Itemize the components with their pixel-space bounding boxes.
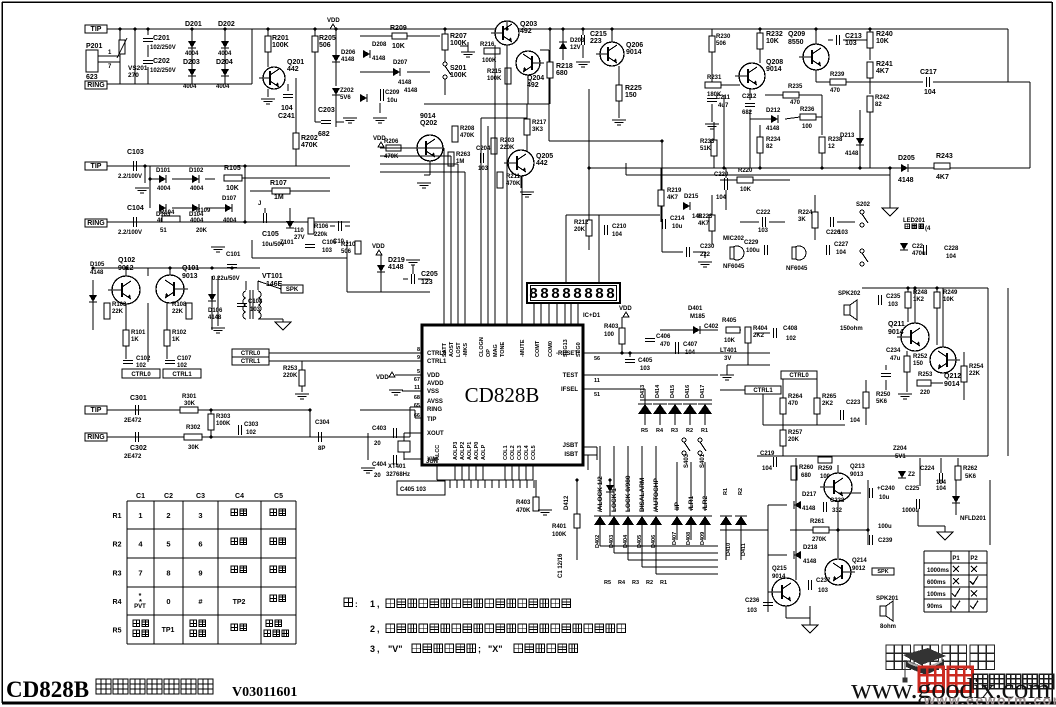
svg-text:D417: D417	[700, 385, 706, 398]
svg-text:8P: 8P	[318, 446, 325, 452]
svg-text:C3: C3	[196, 493, 205, 500]
svg-text:D206: D206	[341, 50, 356, 56]
svg-text:104: 104	[716, 195, 727, 201]
svg-text:103: 103	[888, 302, 899, 308]
svg-text:20: 20	[374, 473, 381, 479]
svg-text:Q213: Q213	[850, 464, 865, 470]
svg-text:D207: D207	[393, 60, 408, 66]
svg-text:103: 103	[838, 230, 849, 236]
svg-text:104: 104	[685, 350, 696, 356]
svg-text:AOLP1: AOLP1	[467, 442, 473, 460]
svg-text:J: J	[258, 201, 261, 207]
svg-text:0: 0	[166, 597, 170, 606]
svg-text:C235: C235	[886, 294, 901, 300]
svg-text:D107: D107	[222, 196, 237, 202]
svg-text:C405: C405	[638, 358, 653, 364]
svg-text:C403: C403	[372, 426, 387, 432]
svg-text::: :	[355, 600, 358, 609]
svg-text:R302: R302	[186, 425, 201, 431]
svg-text:104: 104	[612, 232, 623, 238]
svg-text:9014: 9014	[772, 574, 786, 580]
svg-text:Q205: Q205	[536, 153, 553, 160]
svg-text:4148: 4148	[90, 270, 104, 276]
svg-text:AOLP2: AOLP2	[460, 442, 466, 460]
svg-text:NF6045: NF6045	[786, 266, 808, 272]
svg-text:MAG: MAG	[493, 344, 499, 357]
svg-text:CTRL1: CTRL1	[172, 372, 192, 378]
svg-text:C234: C234	[886, 348, 901, 354]
svg-text:100K: 100K	[450, 72, 467, 79]
svg-text:470K: 470K	[301, 142, 318, 149]
svg-text:492: 492	[520, 28, 532, 35]
svg-text:P201: P201	[86, 43, 102, 50]
svg-text:C211: C211	[716, 95, 731, 101]
svg-text:12V: 12V	[570, 45, 581, 51]
svg-text:R5: R5	[641, 428, 648, 434]
svg-text:104: 104	[762, 466, 773, 472]
svg-text:R218: R218	[556, 63, 573, 70]
svg-text:TEST: TEST	[563, 373, 579, 379]
svg-text:R232: R232	[766, 31, 783, 38]
svg-text:5: 5	[166, 540, 170, 549]
svg-text:623: 623	[86, 74, 98, 81]
svg-text:10u: 10u	[672, 224, 683, 230]
svg-text:Q212: Q212	[944, 373, 961, 380]
svg-text:C407: C407	[683, 342, 698, 348]
svg-text:30K: 30K	[184, 401, 196, 407]
svg-text:104: 104	[850, 418, 861, 424]
svg-text:C214: C214	[670, 216, 685, 222]
svg-text:20K: 20K	[574, 227, 586, 233]
svg-text:R264: R264	[788, 394, 803, 400]
svg-text:D101: D101	[156, 168, 171, 174]
svg-text:D416: D416	[685, 385, 691, 398]
svg-text:102: 102	[136, 363, 147, 369]
svg-text:C101: C101	[226, 252, 241, 258]
svg-text:1: 1	[370, 599, 375, 609]
svg-text:150ohm: 150ohm	[840, 326, 863, 332]
svg-text:8550: 8550	[788, 39, 804, 46]
svg-text:/AUTOCHP: /AUTOCHP	[653, 478, 660, 512]
svg-text:2.2/100V: 2.2/100V	[118, 174, 142, 180]
svg-text:10K: 10K	[943, 297, 955, 303]
svg-text:20K: 20K	[196, 228, 208, 234]
svg-text:27V: 27V	[294, 235, 305, 241]
svg-text:D219: D219	[388, 257, 405, 264]
svg-text:S201: S201	[450, 65, 466, 72]
svg-text:*: *	[139, 593, 142, 600]
svg-text:R2: R2	[738, 488, 744, 495]
svg-text:R1: R1	[723, 488, 729, 495]
svg-text:680: 680	[556, 70, 568, 77]
svg-text:51: 51	[594, 392, 600, 398]
svg-text:506: 506	[319, 42, 331, 49]
svg-text:C203: C203	[318, 107, 335, 114]
svg-text:www.eeworm.com: www.eeworm.com	[923, 692, 1056, 707]
svg-text:4K7: 4K7	[667, 195, 679, 201]
svg-text:R2: R2	[686, 428, 693, 434]
svg-text:R4: R4	[618, 580, 626, 586]
svg-text:R243: R243	[936, 153, 953, 160]
svg-text:R106: R106	[314, 224, 329, 230]
svg-text:R1: R1	[113, 513, 122, 520]
svg-text:(4: (4	[925, 226, 931, 232]
svg-text:9014: 9014	[766, 66, 782, 73]
svg-text:LOST: LOST	[456, 342, 462, 357]
svg-text:10K: 10K	[876, 38, 889, 45]
svg-text:COL5: COL5	[531, 445, 537, 460]
svg-text:R4: R4	[113, 599, 122, 606]
svg-text:R103: R103	[112, 302, 127, 308]
svg-text:90ms: 90ms	[927, 604, 943, 610]
svg-text:2E472: 2E472	[124, 454, 142, 460]
svg-text:C5: C5	[274, 493, 283, 500]
svg-text:C2: C2	[164, 493, 173, 500]
svg-text:P2: P2	[970, 556, 978, 562]
svg-text:C225: C225	[905, 486, 920, 492]
svg-text:492: 492	[527, 82, 539, 89]
svg-text:D204: D204	[216, 59, 233, 66]
svg-text:S403: S403	[684, 453, 690, 468]
svg-text:Z202: Z202	[340, 88, 354, 94]
svg-text:3K: 3K	[798, 217, 806, 223]
svg-text:R252: R252	[913, 354, 928, 360]
svg-text:12: 12	[828, 144, 835, 150]
svg-text:4004: 4004	[190, 218, 204, 224]
svg-text:R254: R254	[969, 364, 984, 370]
svg-text:D408: D408	[686, 532, 692, 545]
svg-text:D218: D218	[803, 545, 818, 551]
svg-text:R234: R234	[766, 137, 781, 143]
svg-text:CTRL0: CTRL0	[131, 372, 151, 378]
svg-text:56: 56	[594, 356, 600, 362]
svg-text:D407: D407	[672, 532, 678, 545]
svg-text:C217: C217	[920, 69, 937, 76]
svg-text:AOLP0: AOLP0	[474, 442, 480, 460]
svg-text:470: 470	[660, 342, 671, 348]
svg-text:R206: R206	[384, 139, 399, 145]
svg-text:4148: 4148	[845, 151, 859, 157]
svg-text:100K: 100K	[216, 421, 231, 427]
svg-text:470K: 470K	[384, 154, 399, 160]
svg-text:LOCK 1: LOCK 1	[611, 488, 618, 512]
svg-text:4148: 4148	[803, 559, 817, 565]
svg-text:R3: R3	[632, 580, 639, 586]
svg-text:104: 104	[936, 480, 947, 486]
svg-text:10K: 10K	[766, 38, 779, 45]
svg-text:OP: OP	[486, 349, 492, 357]
svg-text:C239: C239	[878, 538, 893, 544]
svg-text:2K2: 2K2	[753, 333, 765, 339]
svg-text:0.22u/50V: 0.22u/50V	[212, 276, 240, 282]
svg-text:TP2: TP2	[233, 599, 246, 606]
svg-text:2: 2	[370, 624, 375, 634]
svg-text:VDD: VDD	[619, 306, 632, 312]
svg-text:SATT: SATT	[442, 342, 448, 357]
svg-text:R240: R240	[876, 31, 893, 38]
svg-text:D411: D411	[741, 543, 747, 556]
svg-text:COL2: COL2	[510, 445, 516, 460]
svg-text:9014: 9014	[420, 113, 436, 120]
svg-text:100: 100	[802, 124, 813, 130]
svg-text:6: 6	[198, 540, 202, 549]
svg-text:D106: D106	[208, 308, 223, 314]
svg-text:-MUTE: -MUTE	[520, 339, 526, 357]
svg-text:R210: R210	[341, 242, 356, 248]
svg-text:4148: 4148	[208, 315, 222, 321]
svg-text:47u: 47u	[890, 356, 901, 362]
svg-text:104: 104	[936, 486, 947, 492]
svg-text:Q208: Q208	[766, 59, 783, 66]
svg-text:Z2: Z2	[908, 472, 916, 478]
svg-text:442: 442	[536, 160, 548, 167]
svg-text:"X": "X"	[488, 644, 503, 654]
svg-text:C227: C227	[834, 242, 849, 248]
svg-text:R225: R225	[625, 85, 642, 92]
svg-text:D415: D415	[670, 385, 676, 398]
svg-text:102/250V: 102/250V	[150, 68, 176, 74]
svg-text:Q209: Q209	[788, 31, 805, 38]
svg-text:R212: R212	[574, 220, 589, 226]
svg-text:9013: 9013	[850, 472, 864, 478]
svg-text:1000ms: 1000ms	[927, 568, 950, 574]
svg-text:CTRL1: CTRL1	[427, 359, 447, 365]
svg-text:332: 332	[832, 508, 843, 514]
svg-text:JUN: JUN	[426, 459, 438, 465]
svg-text:R1: R1	[660, 580, 667, 586]
svg-text:102: 102	[246, 430, 257, 436]
svg-text:4K7: 4K7	[936, 174, 949, 181]
svg-text:9: 9	[417, 355, 420, 361]
svg-text:9014: 9014	[944, 381, 960, 388]
svg-text:DISALARM: DISALARM	[639, 478, 646, 512]
svg-text:CTRL1: CTRL1	[241, 359, 261, 365]
svg-text:470K: 470K	[506, 181, 521, 187]
svg-text:D217: D217	[802, 492, 817, 498]
svg-text:103: 103	[845, 40, 857, 47]
svg-text:I/P: I/P	[674, 501, 681, 510]
svg-text:D102: D102	[189, 168, 204, 174]
svg-text:R401: R401	[552, 524, 567, 530]
svg-text:4148: 4148	[372, 56, 386, 62]
svg-text:9014: 9014	[626, 49, 642, 56]
svg-text:C230: C230	[700, 244, 715, 250]
svg-text:,: ,	[377, 624, 380, 634]
svg-text:-MKS: -MKS	[463, 343, 469, 357]
svg-text:ALCC: ALCC	[435, 445, 441, 460]
svg-text:C103: C103	[127, 149, 144, 156]
svg-text:10K: 10K	[740, 187, 752, 193]
svg-text:AOST: AOST	[449, 341, 455, 357]
svg-text:682: 682	[742, 110, 753, 116]
svg-text:VDD: VDD	[327, 18, 340, 24]
svg-text:C405 103: C405 103	[400, 487, 427, 493]
svg-text:VDD: VDD	[427, 373, 440, 379]
svg-text:R303: R303	[216, 414, 231, 420]
svg-text:82: 82	[766, 144, 773, 150]
svg-text:VS201: VS201	[128, 65, 148, 72]
svg-text:10u/50V: 10u/50V	[262, 242, 285, 248]
svg-text:IFSEL: IFSEL	[561, 387, 578, 393]
svg-text:220K: 220K	[500, 145, 515, 151]
svg-text:4004: 4004	[183, 84, 197, 90]
svg-text:/LR1: /LR1	[688, 496, 695, 510]
svg-text:4004: 4004	[223, 218, 237, 224]
svg-text:102/250V: 102/250V	[150, 45, 176, 51]
svg-text:CD828B: CD828B	[465, 383, 540, 407]
svg-text:D203: D203	[570, 38, 585, 44]
svg-text:SPK202: SPK202	[838, 291, 861, 297]
svg-text:R109: R109	[196, 208, 211, 214]
svg-text:103: 103	[758, 228, 769, 234]
svg-text:270K: 270K	[812, 537, 827, 543]
svg-text:3: 3	[198, 511, 202, 520]
svg-text:1: 1	[138, 511, 142, 520]
svg-text:R208: R208	[460, 126, 475, 132]
svg-text:680: 680	[801, 473, 812, 479]
svg-text:C241: C241	[278, 113, 295, 120]
svg-text:2K2: 2K2	[822, 401, 834, 407]
svg-text:S202: S202	[856, 202, 871, 208]
svg-text:Q204: Q204	[527, 75, 544, 82]
svg-text:,: ,	[377, 599, 380, 609]
svg-text:R235: R235	[788, 84, 803, 90]
svg-text:,: ,	[377, 644, 380, 654]
svg-text:9013: 9013	[182, 273, 198, 280]
svg-text:C106: C106	[322, 240, 337, 246]
svg-text:10K: 10K	[392, 43, 405, 50]
svg-text:82: 82	[875, 102, 882, 108]
svg-text:1000u: 1000u	[902, 508, 919, 514]
svg-text:10K: 10K	[226, 185, 239, 192]
svg-text:C213: C213	[845, 33, 862, 40]
svg-text:R201: R201	[272, 35, 289, 42]
svg-text:R261: R261	[810, 519, 825, 525]
svg-text:4004: 4004	[218, 51, 232, 57]
svg-text:C404: C404	[372, 462, 387, 468]
svg-text:220K: 220K	[283, 373, 298, 379]
svg-text:Z204: Z204	[893, 446, 907, 452]
svg-text:R262: R262	[963, 466, 978, 472]
svg-text:R263: R263	[456, 152, 471, 158]
svg-text:10u: 10u	[387, 98, 398, 104]
svg-text:CTRL0: CTRL0	[789, 373, 809, 379]
svg-text:102: 102	[786, 336, 797, 342]
svg-text:470: 470	[830, 88, 841, 94]
svg-text:68: 68	[414, 395, 420, 401]
svg-text:8: 8	[417, 347, 420, 353]
svg-text:AVSS: AVSS	[427, 399, 443, 405]
svg-text:R3: R3	[113, 571, 122, 578]
svg-text:150: 150	[625, 92, 637, 99]
svg-text:9012: 9012	[852, 566, 866, 572]
svg-text:/ALOCK 1/2: /ALOCK 1/2	[597, 476, 604, 512]
svg-text:D202: D202	[218, 21, 235, 28]
svg-text:C220: C220	[714, 172, 729, 178]
svg-text:R101: R101	[131, 330, 146, 336]
svg-text:C402: C402	[704, 324, 719, 330]
svg-text:C210: C210	[612, 224, 627, 230]
svg-text:C201: C201	[153, 35, 170, 42]
svg-text:D413: D413	[640, 385, 646, 398]
svg-text:C303: C303	[244, 422, 259, 428]
svg-text:D215: D215	[684, 194, 699, 200]
svg-text:103: 103	[322, 248, 333, 254]
svg-text:10K: 10K	[724, 338, 736, 344]
svg-text:8: 8	[166, 569, 170, 578]
svg-text:CD828B: CD828B	[6, 677, 89, 702]
svg-text:R301: R301	[182, 394, 197, 400]
svg-text:5: 5	[417, 369, 420, 375]
svg-text:LED201: LED201	[903, 218, 926, 224]
svg-text:COM0: COM0	[548, 341, 554, 357]
svg-text:COMT: COMT	[535, 340, 541, 357]
svg-text:C228: C228	[944, 246, 959, 252]
svg-text:R108: R108	[172, 302, 187, 308]
svg-text:R5: R5	[604, 580, 611, 586]
svg-text:150: 150	[913, 361, 924, 367]
svg-text:R236: R236	[800, 107, 815, 113]
svg-text:270: 270	[128, 72, 139, 79]
svg-text:COL4: COL4	[524, 444, 530, 460]
svg-text:SPK201: SPK201	[876, 596, 899, 602]
svg-text:4004: 4004	[157, 186, 171, 192]
svg-text:C4: C4	[235, 493, 244, 500]
svg-text:TONE: TONE	[500, 341, 506, 357]
svg-text:C22: C22	[912, 244, 924, 250]
svg-text:AOLP3: AOLP3	[453, 442, 459, 460]
svg-text:R250: R250	[876, 392, 891, 398]
svg-text:Q214: Q214	[852, 558, 867, 564]
svg-text:R209: R209	[390, 25, 407, 32]
svg-text:R4: R4	[656, 428, 664, 434]
svg-text:R257: R257	[788, 430, 803, 436]
svg-text:103: 103	[478, 166, 489, 172]
svg-text:MIC202: MIC202	[723, 236, 745, 242]
svg-text:R223: R223	[698, 214, 713, 220]
svg-text:IC+D1: IC+D1	[583, 313, 601, 319]
svg-text:R105: R105	[224, 165, 241, 172]
svg-text:C1 12/16: C1 12/16	[558, 553, 564, 578]
svg-text:8ohm: 8ohm	[880, 624, 896, 630]
svg-text:11: 11	[414, 385, 420, 391]
svg-text:+C240: +C240	[877, 486, 896, 492]
svg-text:R253: R253	[283, 366, 298, 372]
svg-text:4148: 4148	[766, 126, 780, 132]
svg-text:103: 103	[747, 608, 758, 614]
svg-text:R265: R265	[822, 394, 837, 400]
svg-text:Q202: Q202	[420, 120, 437, 127]
svg-text:R259: R259	[818, 466, 833, 472]
svg-text:20: 20	[374, 441, 381, 447]
svg-text:SPK: SPK	[877, 569, 888, 575]
svg-text:66: 66	[414, 413, 420, 419]
svg-text:220k: 220k	[314, 232, 328, 238]
svg-text:123: 123	[421, 279, 433, 286]
svg-text:V03011601: V03011601	[232, 685, 297, 700]
svg-text:1K: 1K	[131, 337, 139, 343]
svg-text:104: 104	[281, 105, 293, 112]
svg-text:9014: 9014	[888, 329, 904, 336]
svg-text:Q203: Q203	[520, 21, 537, 28]
svg-text:Q201: Q201	[287, 59, 304, 66]
svg-text:4148: 4148	[802, 506, 816, 512]
svg-text:11: 11	[594, 378, 600, 384]
svg-text:20K: 20K	[788, 437, 800, 443]
svg-text:2: 2	[166, 511, 170, 520]
svg-text:R260: R260	[799, 465, 814, 471]
svg-text:470K: 470K	[460, 133, 475, 139]
